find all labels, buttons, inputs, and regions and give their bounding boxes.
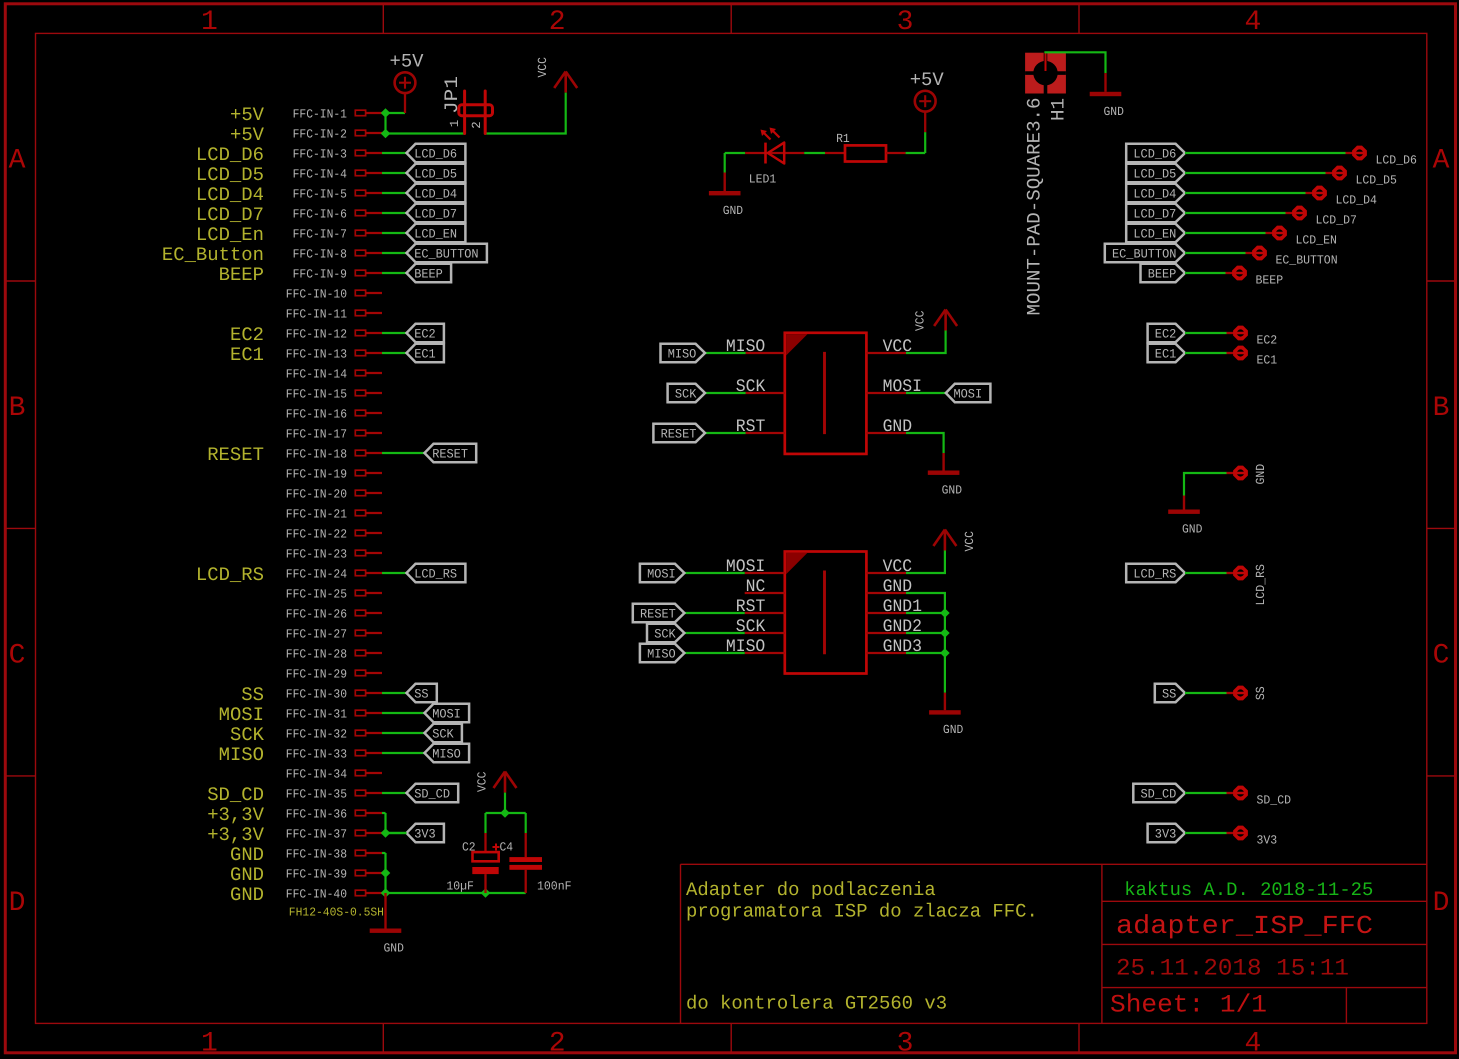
wire net SD_CD (FFC pin 35) — [382, 792, 407, 794]
label EC_BUTTON — [407, 244, 487, 262]
svg-text:JP1: JP1 — [441, 76, 463, 114]
wire pin2 to JP1 pin1 — [382, 132, 465, 134]
svg-text:GND: GND — [1182, 523, 1202, 537]
svg-text:10µF: 10µF — [446, 880, 474, 894]
svg-text:LCD_RS: LCD_RS — [414, 567, 457, 582]
supply VCC capacitors — [504, 773, 507, 793]
wire JP1 pin2 to VCC — [485, 93, 566, 134]
svg-text:D: D — [1433, 888, 1450, 919]
wire net MOSI (FFC pin 31) — [382, 712, 425, 714]
label LCD_D6 — [407, 144, 466, 162]
svg-text:D: D — [9, 888, 26, 919]
svg-text:GND: GND — [230, 884, 264, 906]
supply +5V P1 — [404, 93, 406, 113]
wire GND net pins 38-40 — [384, 853, 386, 893]
svg-text:GND: GND — [942, 484, 962, 498]
svg-text:LCD_D5: LCD_D5 — [414, 167, 457, 182]
svg-text:VCC: VCC — [536, 57, 550, 77]
svg-text:100nF: 100nF — [537, 880, 572, 894]
svg-text:LCD_D7: LCD_D7 — [1133, 207, 1176, 222]
label LCD_RS — [407, 564, 466, 582]
wire net LCD_EN (FFC pin 7) — [382, 232, 407, 234]
frame column dividers — [382, 4, 384, 34]
label EC1 (right) — [1148, 344, 1185, 362]
svg-text:LCD_D6: LCD_D6 — [196, 144, 264, 166]
junction pin39 — [381, 868, 391, 878]
pin RST/GND (ISP top) — [746, 432, 785, 434]
svg-text:FFC-IN-26: FFC-IN-26 — [286, 607, 347, 621]
svg-text:FFC-IN-37: FFC-IN-37 — [286, 827, 347, 841]
svg-text:FFC-IN-23: FFC-IN-23 — [286, 547, 347, 561]
svg-text:R1: R1 — [836, 132, 850, 146]
pad LCD_D5 — [1326, 172, 1334, 174]
svg-text:NC: NC — [746, 577, 766, 597]
svg-text:EC1: EC1 — [414, 347, 436, 362]
svg-text:SD_CD: SD_CD — [414, 787, 450, 802]
wire LED cathode to GND — [725, 152, 746, 154]
pin RST/GND1 (ISP bottom) — [745, 612, 785, 614]
label RESET (ISP bottom) — [684, 612, 744, 614]
label LCD_EN (right) — [1126, 224, 1185, 242]
mount pad H1 MOUNT-PAD-SQUARE3.6 — [1025, 53, 1066, 94]
svg-text:EC1: EC1 — [1155, 347, 1177, 362]
svg-text:C2: C2 — [462, 841, 476, 855]
wire 3V3 net pins 36-37 — [384, 813, 386, 833]
svg-text:LCD_D4: LCD_D4 — [1336, 194, 1377, 208]
svg-text:BEEP: BEEP — [414, 267, 443, 282]
svg-text:H1: H1 — [1048, 98, 1070, 121]
svg-text:SD_CD: SD_CD — [1257, 794, 1292, 808]
svg-text:GND: GND — [943, 723, 963, 737]
wire VCC to caps — [504, 793, 506, 813]
wire GND to capacitors — [386, 892, 526, 894]
svg-text:EC2: EC2 — [1257, 334, 1278, 348]
label RESET (ISP top) — [705, 432, 746, 434]
label MISO (ISP top) — [705, 352, 746, 354]
svg-text:FFC-IN-28: FFC-IN-28 — [286, 647, 347, 661]
svg-text:3V3: 3V3 — [1155, 827, 1177, 842]
svg-text:LCD_D7: LCD_D7 — [1316, 214, 1357, 228]
label 3V3 — [407, 824, 444, 842]
svg-text:FFC-IN-32: FFC-IN-32 — [286, 727, 347, 741]
svg-text:GND: GND — [1104, 105, 1124, 119]
svg-text:FFC-IN-13: FFC-IN-13 — [286, 347, 347, 361]
svg-text:kaktus A.D. 2018-11-25: kaktus A.D. 2018-11-25 — [1124, 879, 1373, 901]
label BEEP (right) — [1141, 264, 1186, 282]
svg-text:LCD_D4: LCD_D4 — [196, 184, 264, 206]
svg-text:1: 1 — [201, 7, 218, 38]
capacitor C4 — [525, 833, 527, 857]
svg-text:EC1: EC1 — [1257, 354, 1278, 368]
connector SV? ISP top box — [785, 333, 867, 454]
svg-text:FFC-IN-6: FFC-IN-6 — [293, 207, 347, 221]
pin MISO/VCC (ISP top) — [746, 352, 785, 354]
LED LED1 — [745, 152, 804, 154]
svg-text:FFC-IN-8: FFC-IN-8 — [293, 247, 347, 261]
svg-text:SD_CD: SD_CD — [1141, 787, 1177, 802]
label SD_CD — [407, 784, 459, 802]
wire net LCD_RS (right) — [1185, 572, 1227, 574]
pad LCD_D6 — [1346, 152, 1354, 154]
label SS — [407, 684, 437, 702]
pin MISO/GND3 (ISP bottom) — [745, 652, 785, 654]
svg-text:3: 3 — [897, 1028, 914, 1059]
svg-text:LCD_EN: LCD_EN — [1296, 234, 1337, 248]
svg-text:+5V: +5V — [230, 124, 265, 146]
junction pin1 — [381, 108, 391, 118]
ground GND (FFC) — [384, 893, 386, 929]
pad SD_CD — [1227, 792, 1235, 794]
wire LED to R1 — [804, 152, 825, 154]
wire net EC1 (right) — [1185, 352, 1227, 354]
svg-text:MISO: MISO — [647, 647, 676, 662]
wire net LCD_D6 (FFC pin 3) — [382, 152, 407, 154]
svg-text:FFC-IN-9: FFC-IN-9 — [293, 267, 347, 281]
wire net EC1 (FFC pin 13) — [382, 352, 407, 354]
wire net LCD_EN (right) — [1185, 232, 1266, 234]
svg-text:RESET: RESET — [207, 444, 264, 466]
svg-text:FFC-IN-12: FFC-IN-12 — [286, 327, 347, 341]
svg-text:EC_BUTTON: EC_BUTTON — [1112, 247, 1176, 262]
pad EC2 — [1227, 332, 1235, 334]
svg-text:MISO: MISO — [432, 747, 461, 762]
svg-text:SD_CD: SD_CD — [207, 784, 264, 806]
svg-text:MISO: MISO — [219, 744, 264, 766]
svg-text:LCD_RS: LCD_RS — [196, 564, 264, 586]
svg-text:+5V: +5V — [910, 69, 945, 91]
pad LCD_EN — [1266, 232, 1274, 234]
supply +5V P2 — [924, 112, 926, 132]
svg-text:FFC-IN-14: FFC-IN-14 — [286, 367, 347, 381]
wire net SCK (FFC pin 32) — [382, 732, 425, 734]
label MOSI (ISP top) — [906, 392, 946, 394]
pad EC1 — [1227, 352, 1235, 354]
svg-text:EC_BUTTON: EC_BUTTON — [1276, 254, 1338, 268]
pad SS — [1227, 692, 1235, 694]
svg-text:3V3: 3V3 — [1257, 834, 1278, 848]
svg-text:FFC-IN-16: FFC-IN-16 — [286, 407, 347, 421]
svg-text:SS: SS — [414, 687, 429, 702]
svg-text:LCD_D5: LCD_D5 — [1356, 174, 1397, 188]
junction pin40 — [381, 888, 391, 898]
wire net LCD_D7 (FFC pin 6) — [382, 212, 407, 214]
label LCD_D4 — [407, 184, 466, 202]
wire net EC2 (right) — [1185, 332, 1227, 334]
wire net MISO (FFC pin 33) — [382, 752, 425, 754]
svg-text:BEEP: BEEP — [1256, 274, 1284, 288]
svg-text:SCK: SCK — [675, 387, 697, 402]
svg-text:FFC-IN-34: FFC-IN-34 — [286, 767, 347, 781]
wire GND chain (ISP bottom) — [906, 593, 945, 693]
svg-text:1: 1 — [448, 120, 462, 127]
junction pin37 — [381, 828, 391, 838]
svg-text:EC1: EC1 — [230, 344, 264, 366]
wire +5V net pins 1-2 — [382, 112, 405, 114]
svg-text:LCD_EN: LCD_EN — [1133, 227, 1176, 242]
resistor R1 — [825, 152, 845, 154]
pad LCD_D4 — [1306, 192, 1314, 194]
svg-text:LCD_RS: LCD_RS — [1254, 564, 1268, 605]
svg-text:LCD_D5: LCD_D5 — [1133, 167, 1176, 182]
junction GND3 — [940, 648, 950, 658]
pin SCK/MOSI (ISP top) — [746, 392, 785, 394]
svg-text:RESET: RESET — [640, 607, 676, 622]
connector SV? ISP bottom box — [785, 552, 867, 674]
wire net BEEP (right) — [1185, 272, 1226, 274]
ground GND (ISP bottom) — [944, 693, 946, 711]
wire net RESET (FFC pin 18) — [382, 452, 425, 454]
wire net BEEP (FFC pin 9) — [382, 272, 407, 274]
svg-text:FFC-IN-31: FFC-IN-31 — [286, 707, 347, 721]
svg-text:MOSI: MOSI — [432, 707, 461, 722]
svg-text:FFC-IN-25: FFC-IN-25 — [286, 587, 347, 601]
svg-text:FFC-IN-39: FFC-IN-39 — [286, 867, 347, 881]
svg-text:B: B — [9, 393, 26, 424]
junction GND1 — [940, 608, 950, 618]
svg-text:25.11.2018 15:11: 25.11.2018 15:11 — [1116, 956, 1349, 983]
svg-text:BEEP: BEEP — [1148, 267, 1177, 282]
svg-text:FFC-IN-30: FFC-IN-30 — [286, 687, 347, 701]
capacitor C2 — [484, 833, 486, 852]
svg-text:FFC-IN-35: FFC-IN-35 — [286, 787, 347, 801]
svg-text:EC2: EC2 — [414, 327, 436, 342]
svg-text:FFC-IN-19: FFC-IN-19 — [286, 467, 347, 481]
svg-text:adapter_ISP_FFC: adapter_ISP_FFC — [1116, 911, 1373, 941]
svg-text:LCD_En: LCD_En — [196, 224, 264, 246]
ground GND (ISP top) — [942, 453, 944, 471]
wire net LCD_D4 (FFC pin 5) — [382, 192, 407, 194]
wire VCC (ISP bottom) — [906, 550, 945, 573]
label MOSI — [425, 704, 470, 722]
svg-text:Adapter do podlaczenia: Adapter do podlaczenia — [686, 879, 936, 901]
svg-text:2: 2 — [470, 121, 484, 128]
svg-text:FFC-IN-1: FFC-IN-1 — [293, 107, 347, 121]
pad EC_BUTTON — [1246, 252, 1254, 254]
wire GND (ISP top) — [906, 433, 944, 453]
wire net EC_BUTTON (right) — [1185, 252, 1246, 254]
svg-text:SS: SS — [1254, 686, 1268, 700]
label MOSI (ISP bottom) — [684, 572, 744, 574]
wire net SD_CD (right) — [1185, 792, 1227, 794]
svg-text:3: 3 — [897, 7, 914, 38]
label BEEP — [407, 264, 452, 282]
wire net SS (FFC pin 30) — [382, 692, 407, 694]
svg-text:FFC-IN-40: FFC-IN-40 — [286, 887, 347, 901]
svg-text:LCD_D4: LCD_D4 — [414, 187, 457, 202]
svg-text:+5V: +5V — [230, 104, 265, 126]
svg-text:SCK: SCK — [654, 627, 676, 642]
svg-text:+3,3V: +3,3V — [207, 824, 264, 846]
label SS (right) — [1155, 684, 1185, 702]
svg-text:GND: GND — [230, 844, 264, 866]
svg-text:SS: SS — [241, 684, 264, 706]
pad 3V3 — [1227, 832, 1235, 834]
svg-text:B: B — [1433, 393, 1450, 424]
label LCD_D5 — [407, 164, 466, 182]
wire net LCD_D6 (right) — [1185, 152, 1346, 154]
svg-text:FFC-IN-20: FFC-IN-20 — [286, 487, 347, 501]
jumper JP1 — [463, 91, 466, 134]
wire net LCD_D5 (FFC pin 4) — [382, 172, 407, 174]
pad BEEP — [1226, 272, 1234, 274]
svg-text:A: A — [9, 146, 26, 177]
label LCD_D6 (right) — [1126, 144, 1185, 162]
svg-text:FFC-IN-27: FFC-IN-27 — [286, 627, 347, 641]
svg-text:4: 4 — [1244, 7, 1261, 38]
svg-text:GND: GND — [723, 204, 743, 218]
junction GND2 — [940, 628, 950, 638]
wire net 3V3 (right) — [1185, 832, 1227, 834]
wire net SS (right) — [1185, 692, 1227, 694]
label LCD_RS (right) — [1126, 564, 1185, 582]
ground GND (LED) — [724, 173, 726, 192]
label SCK — [425, 724, 462, 742]
svg-text:LCD_D7: LCD_D7 — [414, 207, 457, 222]
svg-text:FFC-IN-10: FFC-IN-10 — [286, 287, 347, 301]
wire net LCD_D5 (right) — [1185, 172, 1326, 174]
svg-text:MOSI: MOSI — [954, 387, 983, 402]
label 3V3 (right) — [1148, 824, 1185, 842]
supply VCC top — [564, 73, 567, 93]
svg-text:4: 4 — [1244, 1028, 1261, 1059]
svg-text:FFC-IN-38: FFC-IN-38 — [286, 847, 347, 861]
pin NC/GND (ISP bottom) — [745, 592, 785, 594]
svg-text:LCD_RS: LCD_RS — [1133, 567, 1176, 582]
svg-text:FFC-IN-3: FFC-IN-3 — [293, 147, 347, 161]
label LCD_D5 (right) — [1126, 164, 1185, 182]
svg-text:RESET: RESET — [432, 447, 468, 462]
wire net LCD_RS (FFC pin 24) — [382, 572, 407, 574]
svg-text:+3,3V: +3,3V — [207, 804, 264, 826]
svg-text:GND: GND — [384, 942, 404, 956]
svg-text:LCD_D5: LCD_D5 — [196, 164, 264, 186]
svg-text:FFC-IN-15: FFC-IN-15 — [286, 387, 347, 401]
svg-text:+5V: +5V — [390, 50, 425, 72]
svg-text:Sheet: 1/1: Sheet: 1/1 — [1110, 991, 1267, 1020]
svg-text:LCD_D4: LCD_D4 — [1133, 187, 1176, 202]
svg-text:LED1: LED1 — [749, 173, 777, 187]
svg-text:3V3: 3V3 — [414, 827, 436, 842]
title block outline — [681, 863, 1427, 865]
svg-text:RESET: RESET — [661, 427, 697, 442]
label MISO — [425, 744, 470, 762]
svg-text:EC2: EC2 — [1155, 327, 1177, 342]
wire net LCD_D7 (right) — [1185, 212, 1286, 214]
svg-text:FFC-IN-33: FFC-IN-33 — [286, 747, 347, 761]
wire R1 to +5V — [906, 152, 926, 154]
svg-text:SCK: SCK — [230, 724, 265, 746]
label SCK (ISP bottom) — [684, 632, 744, 634]
svg-text:MOSI: MOSI — [647, 567, 676, 582]
svg-text:FH12-40S-0.5SH: FH12-40S-0.5SH — [289, 906, 384, 920]
wire net LCD_D4 (right) — [1185, 192, 1306, 194]
svg-text:2: 2 — [549, 1028, 566, 1059]
svg-text:FFC-IN-17: FFC-IN-17 — [286, 427, 347, 441]
svg-text:VCC: VCC — [963, 531, 977, 551]
svg-text:GND: GND — [230, 864, 264, 886]
svg-text:LCD_D7: LCD_D7 — [196, 204, 264, 226]
svg-text:FFC-IN-4: FFC-IN-4 — [293, 167, 347, 181]
svg-text:MOSI: MOSI — [219, 704, 264, 726]
svg-text:LCD_D6: LCD_D6 — [1376, 154, 1417, 168]
svg-text:FFC-IN-7: FFC-IN-7 — [293, 227, 347, 241]
pin SCK/GND2 (ISP bottom) — [745, 632, 785, 634]
svg-text:EC2: EC2 — [230, 324, 264, 346]
wire GND (right) — [1184, 473, 1227, 496]
svg-text:C4: C4 — [500, 841, 514, 855]
label RESET — [425, 444, 477, 462]
wire H1 to GND — [1044, 52, 1105, 73]
svg-text:GND: GND — [1254, 464, 1268, 485]
label EC1 — [407, 344, 444, 362]
svg-text:FFC-IN-22: FFC-IN-22 — [286, 527, 347, 541]
C2 plus sign — [493, 846, 500, 848]
svg-text:programatora ISP do zlacza FFC: programatora ISP do zlacza FFC. — [686, 901, 1038, 923]
svg-text:SCK: SCK — [432, 727, 454, 742]
svg-text:FFC-IN-24: FFC-IN-24 — [286, 567, 347, 581]
svg-text:BEEP: BEEP — [219, 264, 264, 286]
wire net EC2 (FFC pin 12) — [382, 332, 407, 334]
svg-text:FFC-IN-5: FFC-IN-5 — [293, 187, 347, 201]
label MISO (ISP bottom) — [684, 652, 744, 654]
svg-text:2: 2 — [549, 7, 566, 38]
pin MOSI/VCC (ISP bottom) — [745, 572, 785, 574]
label EC2 (right) — [1148, 324, 1185, 342]
svg-text:VCC: VCC — [475, 772, 489, 792]
junction VCC caps — [500, 808, 510, 818]
label SD_CD (right) — [1133, 784, 1185, 802]
ground GND (right) — [1183, 496, 1185, 510]
label EC_BUTTON (right) — [1105, 244, 1185, 262]
ground GND (H1) — [1104, 73, 1106, 92]
svg-text:FFC-IN-11: FFC-IN-11 — [286, 307, 347, 321]
svg-text:MOUNT-PAD-SQUARE3.6: MOUNT-PAD-SQUARE3.6 — [1024, 98, 1046, 316]
label EC2 — [407, 324, 444, 342]
svg-text:MISO: MISO — [668, 347, 697, 362]
wire net EC_BUTTON (FFC pin 8) — [382, 252, 407, 254]
junction C2 bottom — [481, 888, 491, 898]
svg-text:A: A — [1433, 146, 1450, 177]
pad LCD_RS — [1227, 572, 1235, 574]
pad LCD_D7 — [1286, 212, 1294, 214]
junction pin2 — [381, 129, 391, 139]
svg-text:LCD_EN: LCD_EN — [414, 227, 457, 242]
svg-text:FFC-IN-36: FFC-IN-36 — [286, 807, 347, 821]
svg-text:LCD_D6: LCD_D6 — [1133, 147, 1176, 162]
svg-text:C: C — [1433, 641, 1450, 672]
svg-text:FFC-IN-21: FFC-IN-21 — [286, 507, 347, 521]
svg-text:FFC-IN-18: FFC-IN-18 — [286, 447, 347, 461]
svg-text:do kontrolera GT2560 v3: do kontrolera GT2560 v3 — [686, 993, 947, 1015]
svg-text:FFC-IN-2: FFC-IN-2 — [293, 127, 347, 141]
label LCD_D7 — [407, 204, 466, 222]
label SCK (ISP top) — [705, 392, 746, 394]
svg-text:C: C — [9, 641, 26, 672]
frame row dividers — [4, 280, 36, 282]
pad GND (right) — [1227, 472, 1234, 474]
label LCD_D7 (right) — [1126, 204, 1185, 222]
label LCD_EN — [407, 224, 466, 242]
supply VCC (ISP top) — [944, 311, 947, 331]
svg-text:1: 1 — [201, 1028, 218, 1059]
supply VCC (ISP bottom) — [944, 531, 947, 551]
svg-text:FFC-IN-29: FFC-IN-29 — [286, 667, 347, 681]
svg-text:EC_BUTTON: EC_BUTTON — [414, 247, 478, 262]
wire VCC (ISP top) — [906, 330, 946, 353]
svg-text:VCC: VCC — [914, 311, 928, 331]
svg-text:SS: SS — [1162, 687, 1177, 702]
wire net 3V3 (FFC pin 37) — [382, 832, 407, 834]
